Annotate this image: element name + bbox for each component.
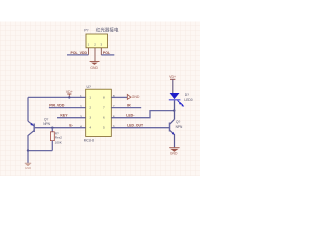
ground (Q2) [169,148,179,156]
svg-text:4: 4 [89,126,91,130]
pin 1 stub [87,48,89,55]
svg-text:3: 3 [89,116,91,120]
node collector junction [27,149,29,151]
power VD+ (left) [66,90,73,98]
svg-text:LED0: LED0 [184,98,192,102]
node LED cathode junction [173,109,175,111]
svg-text:D?: D? [185,93,189,97]
ground (connector) [90,62,100,71]
transistor Q1 [28,117,51,150]
svg-text:MCU-8: MCU-8 [84,139,94,143]
transistor Q2 [170,119,184,147]
wire IR [111,103,141,107]
wire POL [101,51,114,55]
wire pin8 [111,96,127,98]
wire KEY [57,114,86,118]
pin 3 stub [100,48,102,55]
svg-text:U?: U? [87,85,91,89]
svg-text:红光器接电: 红光器接电 [96,27,119,34]
svg-text:IR: IR [127,103,131,107]
node R1 top [51,127,53,129]
pin 2 stub [94,48,96,62]
svg-text:7: 7 [103,106,105,110]
svg-text:6: 6 [103,116,105,120]
ground (Q1) [25,163,31,170]
svg-text:POL_VDD: POL_VDD [71,51,88,55]
connector P1 [84,27,119,62]
svg-text:PIR_VDD: PIR_VDD [49,103,65,107]
svg-text:Res2: Res2 [55,135,63,139]
wire LED- [111,111,174,118]
svg-text:POL: POL [103,51,111,55]
wire to ground [27,151,29,163]
svg-text:5: 5 [103,126,105,130]
wire emitter riser [27,97,29,121]
svg-text:GND: GND [170,152,178,156]
svg-text:NPN: NPN [43,122,50,126]
svg-text:2: 2 [89,106,91,110]
wire R1 return [28,150,52,152]
svg-text:GND: GND [132,95,140,99]
svg-text:LED-: LED- [126,114,135,118]
IC U1 [80,85,115,142]
svg-text:VD+: VD+ [169,75,176,79]
LED D1 [169,93,193,120]
wire E- (pin4 to Q1 base) [35,123,86,127]
svg-text:100K: 100K [55,140,63,144]
svg-text:GND: GND [90,66,98,70]
wire PIR_VDD [49,103,86,107]
svg-text:VD+: VD+ [66,90,73,94]
resistor R1 [50,128,62,151]
svg-text:8: 8 [103,95,105,99]
node VD+ tap [68,96,70,98]
svg-text:KEY: KEY [60,114,68,118]
svg-text:1: 1 [89,95,91,99]
svg-text:GND: GND [25,166,31,170]
power VD+ (LED) [169,75,176,93]
wire POL_VDD [67,51,88,55]
wire pin1 VD+ [28,96,86,98]
svg-text:NPN: NPN [176,125,183,129]
svg-text:Q?: Q? [44,117,48,121]
power port GND (pin8) [127,94,140,99]
svg-text:P?: P? [84,29,88,33]
svg-text:LED_OUT: LED_OUT [127,123,144,127]
wire LED_OUT [111,123,169,127]
svg-text:Q?: Q? [176,120,180,124]
